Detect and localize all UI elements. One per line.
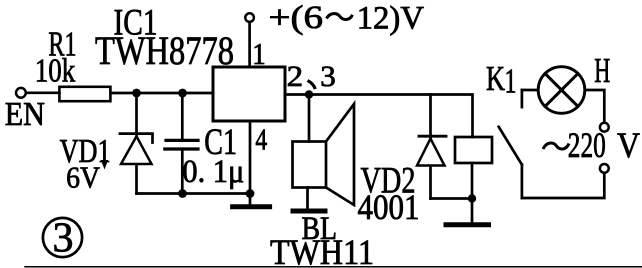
enumeration comma [308,81,316,90]
resistor R1 [59,87,110,101]
wire 220V loop bottom [522,174,604,198]
border artifact bottom [25,266,642,268]
svg-text:10k: 10k [35,53,76,90]
capacitor C1 lead bottom [181,150,184,194]
svg-text:6V: 6V [66,160,100,195]
terminal EN [16,88,26,98]
svg-text:1: 1 [505,62,517,101]
tilde of supply label [327,14,353,20]
svg-text:3: 3 [53,216,74,262]
svg-text:0. 1μ: 0. 1μ [182,154,244,190]
switch K1 bottom lead [521,165,524,198]
node pin4 ground [246,189,255,198]
wire K1 top to lamp [522,89,537,92]
diode VD2 triangle [417,139,445,166]
svg-text:220: 220 [568,125,606,165]
tilde of 220V [543,143,569,149]
svg-text:V: V [617,125,640,165]
terminal 220V top [600,123,609,132]
lamp H circle [538,67,585,114]
relay K coil top lead [471,163,474,199]
svg-text:1: 1 [252,36,265,71]
terminal 220V bottom [600,164,609,173]
svg-text:12)V: 12)V [357,0,424,36]
wire VD2 bottom to relay [431,197,473,200]
svg-text:2: 2 [287,60,304,93]
capacitor C1 lead top [181,93,184,139]
svg-text:+(6: +(6 [269,0,324,36]
svg-text:3: 3 [320,60,336,93]
ground IC [249,194,252,205]
wire pins 2,3 rail to relay [285,95,473,138]
relay K coil box [455,137,492,163]
speaker BL box [293,142,327,188]
switch K1 blade [499,127,522,165]
diode VD1 zener lead [135,93,138,194]
svg-text:H: H [594,51,610,90]
node VD1 top [132,89,141,98]
capacitor C1 plates [166,139,198,142]
diode VD2 bar [419,135,446,138]
terminal power [245,13,254,22]
speaker BL cone [326,104,354,205]
arrow under VD1 label [103,150,105,163]
wire pin1 [248,23,251,67]
lamp H cross [545,74,578,107]
wire EN to R1 [27,91,59,94]
wire pin4 [249,121,252,194]
diode VD1 zener bar [120,134,153,143]
diode VD1 zener triangle [121,136,152,164]
wire R1 to IC1 [110,92,213,95]
ground speaker [306,188,309,210]
wire speaker top [308,95,311,142]
figure number circle [43,218,82,257]
svg-text:TWH8778: TWH8778 [95,28,234,73]
node speaker top [305,90,313,98]
ground relay [471,199,474,223]
wire lamp to terminal [586,90,604,122]
svg-text:4001: 4001 [358,187,420,227]
op-amp IC1 box [213,67,285,121]
wire bottom rail [137,192,251,195]
node C1 bottom [178,189,187,198]
svg-text:K: K [486,59,505,98]
svg-text:EN: EN [5,96,45,133]
switch K1 top contact [521,90,524,107]
node C1 top [178,89,187,98]
svg-text:4: 4 [255,122,267,157]
svg-text:TWH11: TWH11 [270,232,374,268]
node relay ground [468,194,476,202]
diode VD2 lead [429,95,432,199]
